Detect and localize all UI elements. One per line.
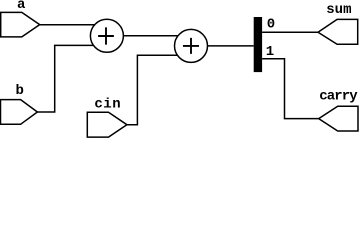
wire a to adder U1 bbox=[40, 24, 95, 26]
input pin cin bbox=[87, 112, 127, 137]
input pin a bbox=[1, 12, 40, 37]
svg-text:a: a bbox=[17, 0, 26, 13]
wire splitter bit0 to sum bbox=[262, 31, 318, 33]
output pin carry bbox=[319, 106, 358, 131]
output pin sum bbox=[318, 19, 358, 44]
svg-text:cin: cin bbox=[94, 97, 121, 113]
adder U2 (circle with plus) bbox=[175, 29, 208, 62]
wire U1 to U2 bbox=[123, 35, 178, 37]
plus sign U1 bbox=[98, 27, 114, 44]
svg-text:sum: sum bbox=[326, 2, 351, 18]
wire U2 to splitter bbox=[208, 45, 254, 47]
splitter bar bbox=[254, 17, 262, 72]
plus sign U2 bbox=[183, 38, 199, 54]
svg-text:0: 0 bbox=[267, 17, 275, 33]
wire cin to adder U2 bbox=[127, 55, 177, 125]
svg-text:carry: carry bbox=[319, 88, 358, 104]
wire b to adder U1 bbox=[37, 45, 93, 112]
adder U1 (circle with plus) bbox=[90, 19, 123, 52]
svg-text:1: 1 bbox=[266, 44, 274, 60]
wire splitter bit1 to carry bbox=[262, 59, 319, 119]
svg-text:b: b bbox=[15, 83, 23, 99]
input pin b bbox=[1, 100, 38, 125]
